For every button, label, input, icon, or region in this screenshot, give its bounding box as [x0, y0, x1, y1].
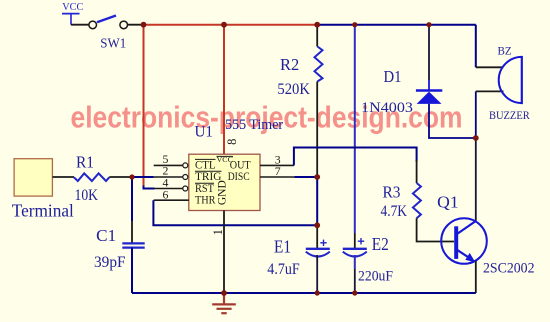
- wire: DISC pin7 to junction: [294, 176, 317, 178]
- R2 column: top lead: [316, 25, 318, 47]
- svg-text:RST: RST: [195, 183, 214, 195]
- buzzer BZ: [476, 44, 530, 122]
- wire: terminal to R1: [52, 176, 74, 178]
- capacitor C1: [94, 226, 145, 271]
- node: E2 top: [352, 22, 357, 27]
- transistor Q1: [437, 193, 534, 277]
- wire: VCC to switch: [71, 24, 89, 26]
- node: ground rail E2: [352, 290, 357, 295]
- svg-text:E2: E2: [372, 234, 389, 254]
- svg-text:DISC: DISC: [228, 171, 250, 183]
- node: THR/E1 junction: [314, 222, 320, 228]
- wire: navy elbow into RST pin: [144, 186, 155, 189]
- svg-text:D1: D1: [384, 67, 402, 86]
- node: TRIG/R1/C1 junction: [129, 174, 134, 179]
- wire: red vertical SW1 junction to RST row: [143, 25, 145, 187]
- node: SW1 output: [141, 22, 147, 28]
- svg-text:10K: 10K: [75, 187, 99, 204]
- pin 2 stub + bubble: [154, 176, 183, 178]
- svg-text:SW1: SW1: [100, 37, 126, 52]
- wire: OUT pin3 up and over to R3: [294, 148, 417, 166]
- E2 column wire from top rail: [354, 25, 356, 233]
- node: ground rail E1: [315, 290, 320, 295]
- svg-text:4.7uF: 4.7uF: [267, 261, 300, 278]
- svg-text:R1: R1: [76, 153, 94, 172]
- electrolytic capacitor E2: [343, 234, 393, 284]
- pin 7 stub: [260, 176, 294, 178]
- svg-text:U1: U1: [195, 123, 214, 140]
- resistor R3: [413, 183, 421, 218]
- node: DISC/R2/E1 junction: [314, 174, 320, 180]
- in-box pin name VCC with overline: [195, 155, 251, 207]
- pin 3 stub: [260, 164, 294, 166]
- node: ground rail GND: [221, 290, 227, 296]
- svg-text:39pF: 39pF: [94, 254, 126, 271]
- svg-text:6: 6: [163, 187, 169, 201]
- svg-text:OUT: OUT: [230, 159, 251, 171]
- wire: GND pin1 down to ground rail: [223, 211, 225, 294]
- pin 5 stub + bubble: [154, 164, 183, 166]
- node: D1/collector junction: [473, 135, 479, 141]
- wire: junction down to C1: [131, 177, 133, 221]
- wire: DISC junction down to THR junction and E1: [316, 177, 318, 225]
- wire: D1 anode down then right to collector line: [429, 104, 476, 138]
- svg-text:7: 7: [275, 164, 281, 178]
- wire: THR pin6 down and right to E1: [153, 200, 317, 225]
- node: R2 top: [314, 22, 320, 28]
- wire: C1 to ground rail: [131, 248, 133, 293]
- svg-text:2SC2002: 2SC2002: [483, 261, 535, 277]
- svg-text:4.7K: 4.7K: [381, 203, 408, 220]
- resistor R1: [74, 173, 109, 181]
- svg-text:220uF: 220uF: [358, 269, 393, 285]
- svg-text:GND: GND: [216, 180, 228, 205]
- svg-text:BUZZER: BUZZER: [489, 110, 530, 122]
- 555 timer U1 box: [189, 154, 260, 210]
- wire: R2 bottom lead to DISC junction: [316, 82, 318, 178]
- svg-text:R3: R3: [383, 183, 401, 202]
- svg-text:1N4003: 1N4003: [361, 100, 413, 116]
- node: D1 top: [426, 22, 431, 27]
- wire: R3 bottom to Q1 base: [417, 218, 454, 241]
- pin 4 stub + bubble: [155, 188, 183, 190]
- svg-text:1: 1: [211, 229, 225, 235]
- svg-text:8: 8: [225, 139, 239, 145]
- wire: TRIG junction to pin 2: [132, 176, 154, 178]
- wire: top rail corner down to buzzer top pin: [475, 25, 477, 68]
- wire: top rail navy segment (R2 column to buzzer corner): [317, 24, 476, 26]
- svg-text:BZ: BZ: [498, 44, 512, 58]
- pin 6 stub: [154, 199, 189, 201]
- wire: top rail red segment (SW1 to R2 column): [144, 24, 318, 26]
- wire: E1 to ground rail: [316, 255, 318, 290]
- resistor R2: [315, 47, 323, 82]
- diode D1: [361, 67, 442, 116]
- svg-text:555 Timer: 555 Timer: [225, 117, 283, 133]
- svg-text:CTL: CTL: [195, 159, 216, 171]
- svg-text:Q1: Q1: [437, 193, 459, 212]
- switch SW1: [89, 16, 128, 52]
- ground symbol: [212, 293, 236, 313]
- svg-text:520K: 520K: [277, 81, 310, 98]
- wire: emitter down to ground rail: [475, 261, 477, 293]
- svg-text:VCC: VCC: [62, 2, 83, 13]
- node: VCC pin column: [221, 22, 227, 28]
- electrolytic capacitor E1: [267, 237, 330, 279]
- terminal block: [14, 159, 52, 196]
- svg-text:E1: E1: [274, 237, 291, 257]
- wire: E2 to ground rail: [354, 255, 356, 269]
- wire: switch to junction: [127, 24, 143, 26]
- svg-text:C1: C1: [96, 226, 116, 245]
- VCC power symbol: [62, 2, 83, 25]
- wire: buzzer bottom pin down to collector (through D1 junction): [475, 91, 477, 138]
- wire: ground rail: [132, 292, 476, 294]
- svg-text:Terminal: Terminal: [12, 201, 74, 221]
- wire: red vertical to 555 VCC pin 8: [223, 25, 225, 155]
- wire: R1 to TRIG junction: [109, 176, 132, 178]
- wire: R3 top lead: [416, 160, 418, 183]
- svg-text:THR: THR: [195, 195, 216, 207]
- D1 column: top lead: [428, 25, 430, 80]
- svg-text:R2: R2: [280, 55, 299, 74]
